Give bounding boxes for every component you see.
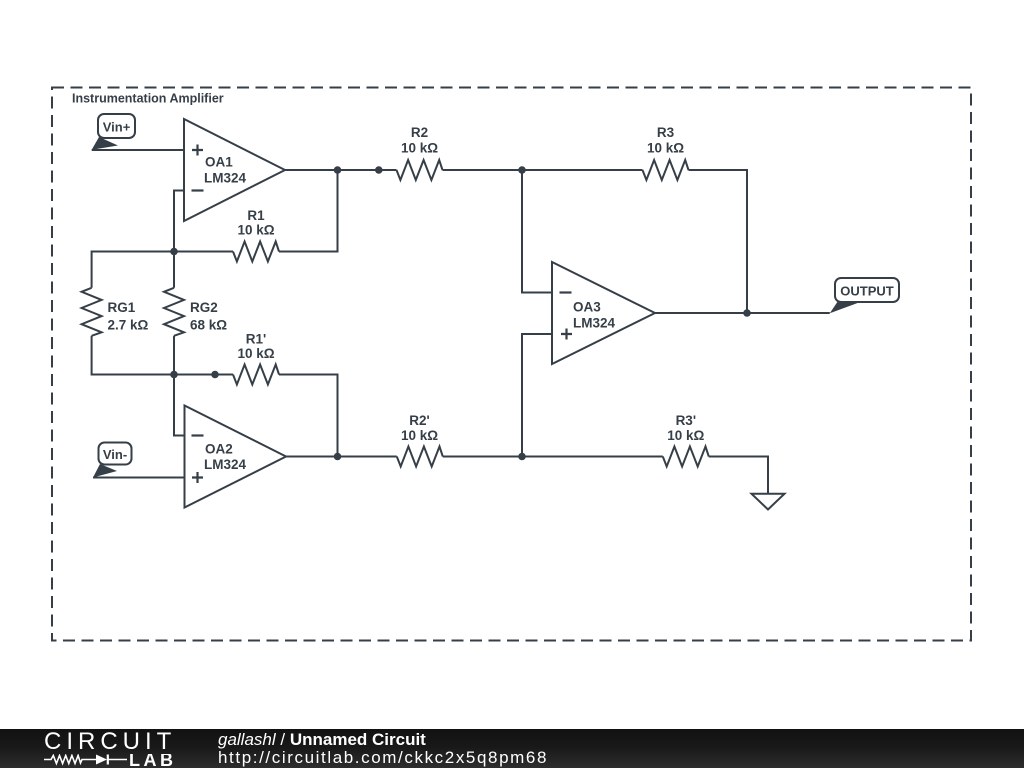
resistor R3 10 k xyxy=(643,125,689,180)
resistor R1 10 k xyxy=(233,208,279,262)
svg-text:68 kΩ: 68 kΩ xyxy=(190,318,227,333)
wire: R3' to ground xyxy=(709,457,768,494)
junction dot: node A xyxy=(170,248,178,256)
svg-text:10 kΩ: 10 kΩ xyxy=(237,223,274,238)
flag Vin- xyxy=(93,443,132,478)
svg-text:10 kΩ: 10 kΩ xyxy=(667,428,704,443)
footer credit text xyxy=(218,731,548,767)
wire: node A to RG1 top xyxy=(92,252,174,288)
svg-text:LM324: LM324 xyxy=(204,457,247,472)
wire: RG1 bottom to node B xyxy=(92,336,174,375)
svg-text:10 kΩ: 10 kΩ xyxy=(401,141,438,156)
op-amp OA1 (LM324) xyxy=(184,119,285,221)
wire: OA1 inverting input to node A xyxy=(174,191,184,252)
resistor R2' 10 k xyxy=(397,413,443,467)
wire: Vin+ to OA1 noninverting input xyxy=(92,149,184,151)
annotation dashed box xyxy=(52,88,971,641)
svg-text:RG1: RG1 xyxy=(108,300,136,315)
op-amp OA3 (LM324) xyxy=(552,262,655,364)
junction dot: net marker on node B wire xyxy=(211,371,219,379)
wire: R2' to R3' xyxy=(443,456,663,458)
junction dot: node B xyxy=(170,371,178,379)
wire: node B down to OA2 inverting input xyxy=(174,375,185,436)
resistor R2 10 k xyxy=(397,125,443,180)
resistor RG2 68 k xyxy=(164,252,227,375)
wire: node D up to OA3 noninverting input xyxy=(522,334,552,457)
resistor R1' 10 k xyxy=(233,332,279,385)
resistor R3' 10 k xyxy=(663,413,709,467)
svg-text:R1': R1' xyxy=(246,332,266,347)
wire: R2 to R3 xyxy=(443,169,643,171)
flag Vin+ xyxy=(92,114,135,150)
svg-text:RG2: RG2 xyxy=(190,300,218,315)
junction dot: node C (R2/R3/OA3 inverting) xyxy=(518,166,526,174)
junction dot: OA1 output feedback tap xyxy=(334,166,342,174)
svg-text:OA2: OA2 xyxy=(205,442,233,457)
resistor RG1 2.7 k xyxy=(82,288,149,336)
wire: OA3 output to OUTPUT flag xyxy=(655,312,830,314)
wire: OA1 output to R2 xyxy=(285,169,397,171)
svg-text:LM324: LM324 xyxy=(204,171,247,186)
svg-text:10 kΩ: 10 kΩ xyxy=(401,428,438,443)
svg-text:OA3: OA3 xyxy=(573,300,601,315)
svg-text:R3': R3' xyxy=(676,413,696,428)
op-amp OA2 (LM324) xyxy=(185,406,287,508)
svg-text:R3: R3 xyxy=(657,125,675,140)
svg-text:Vin-: Vin- xyxy=(103,447,127,462)
svg-text:Vin+: Vin+ xyxy=(103,120,131,135)
svg-text:10 kΩ: 10 kΩ xyxy=(647,141,684,156)
junction dot: OA3 output / R3 feedback xyxy=(743,309,751,317)
svg-text:R2': R2' xyxy=(409,413,429,428)
wire: OA2 output to R2' xyxy=(286,456,397,458)
svg-text:OUTPUT: OUTPUT xyxy=(840,284,894,299)
svg-text:10 kΩ: 10 kΩ xyxy=(237,346,274,361)
CircuitLab logo xyxy=(44,732,184,768)
svg-text:Instrumentation Amplifier: Instrumentation Amplifier xyxy=(72,92,224,106)
svg-text:LAB: LAB xyxy=(129,754,177,768)
svg-text:2.7 kΩ: 2.7 kΩ xyxy=(108,318,149,333)
wire: Vin- to OA2 noninverting input xyxy=(93,477,185,479)
svg-text:R2: R2 xyxy=(411,125,428,140)
footer bar xyxy=(0,729,1024,768)
wire: R1' down to OA2 output node xyxy=(279,375,338,457)
wire: node C down to OA3 inverting input xyxy=(522,170,552,293)
junction dot: OA2 output feedback tap xyxy=(334,453,342,461)
wire: feedback from OA1 output down to R1 xyxy=(279,170,338,252)
wire: R1 to node A xyxy=(174,251,233,253)
wire: node B to R1' xyxy=(174,374,233,376)
junction dot: node D (R2'/R3'/OA3 noninverting) xyxy=(518,453,526,461)
svg-text:LM324: LM324 xyxy=(573,316,616,331)
wire: R3 down to OA3 output node xyxy=(689,170,748,313)
ground xyxy=(752,494,785,510)
svg-text:R1: R1 xyxy=(247,208,265,223)
svg-text:OA1: OA1 xyxy=(205,155,233,170)
flag OUTPUT xyxy=(830,278,899,313)
junction dot: net marker on OA1 output xyxy=(375,166,383,174)
